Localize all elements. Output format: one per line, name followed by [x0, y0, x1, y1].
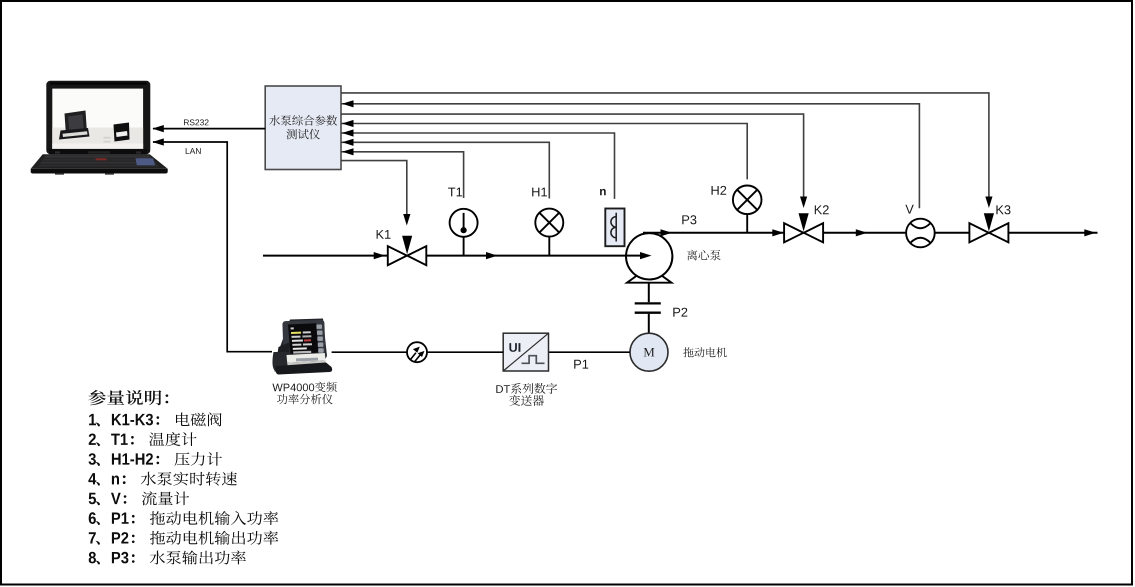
flow meter V: [906, 219, 935, 248]
wire sense H2 to tester: [341, 123, 353, 125]
wire suction pipe middle segment: [427, 255, 627, 257]
legend title 参量说明: [88, 390, 168, 405]
centrifugal pump: [626, 233, 672, 279]
label RS232: [184, 119, 209, 125]
label n: [600, 189, 606, 195]
label K3: [996, 205, 1010, 214]
label WP4000变频: [272, 382, 336, 393]
flow arrow between T1 and H1: [486, 252, 498, 259]
label V: [905, 205, 913, 214]
centrifugal pump base: [627, 276, 672, 283]
valve K1: [388, 236, 427, 265]
WP4000 power analyzer: [272, 319, 332, 375]
label K1: [377, 230, 391, 239]
label P2: [673, 308, 687, 317]
label LAN: [186, 148, 201, 154]
wire RS232: tester box to laptop: [153, 128, 265, 130]
wire sense H1 to tester: [341, 141, 353, 143]
wire suction into pump: [626, 255, 642, 257]
label 水泵综合参数: [269, 115, 337, 126]
label P1: [574, 360, 588, 369]
tester box U1 水泵综合参数测试仪: [265, 86, 341, 170]
label T1: [448, 188, 462, 197]
flow arrow before K1: [374, 252, 386, 259]
label 离心泵: [687, 250, 721, 261]
wire sense n to tester: [341, 132, 353, 134]
wire control K2 from tester: [341, 114, 804, 197]
label UI: [509, 343, 520, 352]
label 拖动电机: [683, 347, 726, 357]
label 功率分析仪: [277, 394, 333, 405]
flow arrow before K2: [772, 229, 784, 236]
label K2: [815, 205, 829, 214]
wire LAN: laptop to WP4000 analyzer: [153, 142, 272, 352]
valve K3: [969, 213, 1008, 242]
wire control K1 from tester: [341, 161, 407, 215]
legend item 6 P1: [89, 511, 279, 525]
transducer gauge symbol: [407, 342, 427, 362]
flow arrow between K2 and V: [856, 229, 868, 236]
label 变送器: [509, 395, 544, 406]
legend item 2 T1: [89, 432, 197, 446]
pressure gauge H1: [535, 209, 563, 256]
motor M: [630, 333, 668, 371]
label 测试仪: [287, 129, 320, 140]
wire suction pipe left segment: [263, 255, 388, 257]
legend item 3 H1-H2: [89, 452, 223, 466]
laptop computer: [31, 81, 168, 175]
legend item 7 P2: [89, 531, 278, 545]
flow arrow at pump outlet: [661, 229, 673, 236]
legend item 5 V: [89, 491, 190, 505]
label P3: [682, 215, 696, 224]
legend item 4 n: [88, 472, 237, 486]
speed sensor n: [605, 209, 624, 247]
label H1: [532, 188, 547, 197]
label DT系列数字: [496, 383, 557, 394]
wire analyzer to transmitter: [332, 351, 504, 353]
legend item 1 K1-K3: [89, 413, 222, 427]
wire P1: transmitter to motor: [549, 351, 631, 353]
coupling P2: [635, 283, 661, 334]
valve K2: [784, 213, 823, 242]
transmitter DT box: [503, 333, 548, 371]
flow arrow at line end: [1084, 229, 1096, 236]
wire sense T1 to tester: [341, 151, 353, 153]
pressure gauge H2: [733, 186, 762, 233]
label H2: [712, 186, 727, 195]
wire sense V to tester: [341, 103, 353, 105]
thermometer T1: [450, 209, 478, 256]
legend item 8 P3: [89, 551, 246, 565]
wire discharge pipe: [643, 232, 906, 234]
wire control K3 from tester: [341, 93, 989, 198]
